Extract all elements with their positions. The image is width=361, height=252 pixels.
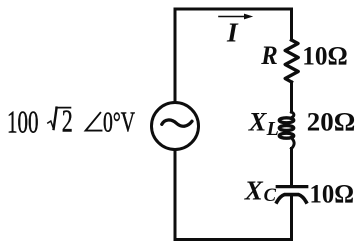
svg-text:R: R	[260, 40, 277, 70]
svg-text:2: 2	[62, 102, 73, 138]
svg-text:20Ω: 20Ω	[307, 107, 356, 137]
svg-text:X: X	[248, 107, 268, 137]
svg-text:L: L	[266, 118, 279, 140]
svg-text:I: I	[226, 17, 239, 48]
svg-text:10Ω: 10Ω	[302, 41, 348, 71]
svg-text:10Ω: 10Ω	[310, 178, 355, 208]
svg-text:X: X	[244, 175, 264, 205]
svg-text:100: 100	[7, 104, 39, 139]
svg-text:0°V: 0°V	[103, 108, 135, 139]
svg-text:C: C	[264, 186, 277, 206]
